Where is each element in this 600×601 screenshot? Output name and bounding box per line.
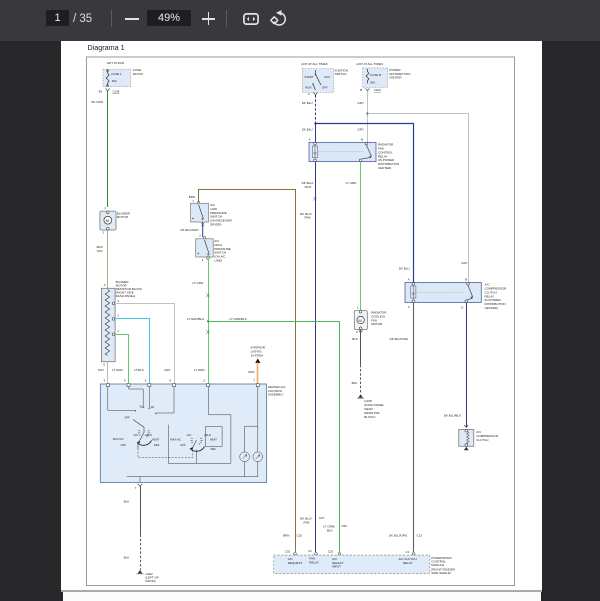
svg-text:GRY: GRY (358, 101, 364, 105)
svg-text:DEF: DEF (211, 447, 217, 451)
svg-text:M: M (358, 318, 361, 323)
svg-text:OFF: OFF (124, 415, 130, 419)
svg-text:C33: C33 (285, 549, 291, 553)
svg-text:D: D (461, 306, 463, 310)
svg-text:CENTER): CENTER) (485, 306, 498, 310)
svg-text:MODULE: MODULE (431, 563, 444, 567)
svg-text:BRN: BRN (283, 534, 289, 538)
svg-text:3: 3 (104, 283, 106, 287)
svg-text:CENTER): CENTER) (378, 166, 391, 170)
svg-text:C20: C20 (297, 534, 303, 538)
svg-text:DK BLU/WHT: DK BLU/WHT (181, 228, 200, 232)
svg-text:BLK: BLK (352, 381, 358, 385)
svg-text:1: 1 (253, 378, 255, 382)
svg-text:3: 3 (104, 378, 106, 382)
svg-text:DK BLU/BLK: DK BLU/BLK (444, 414, 461, 418)
svg-text:DRYER): DRYER) (210, 223, 221, 227)
svg-text:BLK: BLK (124, 556, 130, 560)
svg-text:WHT: WHT (305, 185, 312, 189)
svg-text:TAN: TAN (97, 249, 103, 253)
svg-text:FUSE B: FUSE B (371, 73, 382, 77)
svg-text:A/C: A/C (187, 433, 192, 437)
svg-text:HOT IN RUN: HOT IN RUN (107, 61, 124, 65)
svg-text:DK BLU: DK BLU (302, 128, 313, 132)
svg-text:30A: 30A (112, 79, 117, 83)
svg-text:LT GRN: LT GRN (112, 368, 123, 372)
svg-text:1: 1 (202, 258, 204, 262)
svg-text:DK BLU: DK BLU (399, 267, 410, 271)
svg-text:MAX A/C: MAX A/C (113, 437, 124, 441)
svg-text:3N: 3N (99, 90, 103, 94)
svg-text:A: A (309, 137, 311, 141)
svg-text:LT GRN: LT GRN (194, 368, 205, 372)
svg-text:INPUT: INPUT (332, 564, 341, 568)
svg-text:5: 5 (145, 378, 147, 382)
svg-text:DASH PANEL): DASH PANEL) (116, 294, 136, 298)
svg-text:LT GRN/BLK: LT GRN/BLK (187, 317, 204, 321)
svg-text:GRY: GRY (461, 261, 467, 265)
svg-text:PNK: PNK (304, 520, 310, 524)
svg-text:LT GRN: LT GRN (193, 281, 204, 285)
svg-text:ASSEMBLY: ASSEMBLY (268, 392, 284, 396)
svg-text:MOTOR: MOTOR (371, 322, 383, 326)
svg-text:DEF: DEF (154, 443, 160, 447)
svg-text:30A: 30A (370, 81, 375, 85)
svg-text:MAX A/C: MAX A/C (170, 438, 181, 442)
svg-text:C2: C2 (308, 549, 312, 553)
svg-text:START: START (304, 75, 313, 79)
svg-text:5: 5 (103, 363, 105, 367)
svg-text:SIDE SHIELD): SIDE SHIELD) (431, 571, 451, 575)
svg-text:HOT AT ALL TIMES: HOT AT ALL TIMES (357, 62, 383, 66)
svg-text:LT BLU: LT BLU (134, 368, 144, 372)
svg-text:RELAY: RELAY (403, 561, 413, 565)
svg-text:CENTER: CENTER (389, 75, 402, 79)
svg-text:OFF: OFF (180, 443, 186, 447)
svg-text:HEAT: HEAT (152, 437, 159, 441)
svg-text:ORG: ORG (248, 370, 256, 374)
svg-text:GRY: GRY (358, 128, 364, 132)
svg-text:RUN: RUN (305, 85, 311, 89)
svg-text:Diagrama 1: Diagrama 1 (88, 43, 125, 52)
svg-text:2: 2 (356, 330, 358, 334)
svg-text:RADIO): RADIO) (145, 579, 156, 583)
svg-text:DK BLU: DK BLU (302, 101, 313, 105)
svg-text:A: A (408, 278, 410, 282)
svg-text:OFF: OFF (322, 85, 328, 89)
svg-text:1: 1 (192, 199, 194, 203)
svg-text:C234: C234 (113, 90, 120, 94)
svg-text:C100: C100 (374, 88, 381, 92)
svg-text:BLOCK: BLOCK (133, 72, 143, 76)
svg-text:C: C (408, 305, 410, 309)
svg-text:B: B (361, 137, 363, 141)
svg-text:DK BLU/ORG: DK BLU/ORG (390, 337, 409, 341)
svg-text:1: 1 (117, 329, 119, 333)
svg-text:2: 2 (103, 230, 105, 234)
svg-text:M: M (106, 218, 109, 223)
svg-text:MOTOR: MOTOR (117, 215, 129, 219)
svg-text:BLK: BLK (327, 528, 333, 532)
svg-text:2: 2 (203, 378, 205, 382)
svg-text:LT GRN/BLK: LT GRN/BLK (230, 317, 247, 321)
svg-text:LT GRN: LT GRN (346, 181, 357, 185)
svg-text:A/C: A/C (134, 433, 139, 437)
svg-text:BLOCK): BLOCK) (364, 415, 375, 419)
svg-text:BLK: BLK (124, 500, 130, 504)
svg-text:SWITCH: SWITCH (335, 72, 347, 76)
svg-text:C27: C27 (319, 516, 325, 520)
svg-text:2: 2 (199, 234, 201, 238)
svg-text:SYSTEM: SYSTEM (251, 353, 264, 357)
svg-text:2: 2 (117, 313, 119, 317)
svg-text:7: 7 (135, 486, 137, 490)
svg-text:LINE): LINE) (214, 259, 222, 263)
svg-text:1: 1 (104, 206, 106, 210)
svg-text:ACC: ACC (324, 75, 330, 79)
svg-text:6: 6 (170, 378, 172, 382)
svg-text:C13: C13 (417, 534, 423, 538)
svg-text:OFF: OFF (121, 443, 127, 447)
svg-text:GRY: GRY (164, 368, 170, 372)
svg-text:C1: C1 (406, 550, 410, 554)
svg-text:FUSE 1: FUSE 1 (112, 72, 123, 76)
svg-text:1: 1 (357, 305, 359, 309)
svg-text:BLK: BLK (352, 337, 358, 341)
svg-text:DK BLU/ORG: DK BLU/ORG (389, 534, 408, 538)
svg-text:4: 4 (124, 378, 126, 382)
svg-text:C90: C90 (341, 524, 347, 528)
svg-text:HOT AT ALL TIMES: HOT AT ALL TIMES (301, 62, 327, 66)
svg-text:RELAY: RELAY (309, 560, 319, 564)
svg-text:HEAT: HEAT (210, 437, 217, 441)
svg-text:HI/LO: HI/LO (204, 433, 211, 437)
svg-text:REQUEST: REQUEST (288, 561, 303, 565)
svg-text:TAN: TAN (98, 368, 104, 372)
svg-text:B: B (465, 278, 467, 282)
svg-text:CLUTCH: CLUTCH (476, 438, 488, 442)
svg-text:4: 4 (117, 299, 119, 303)
svg-text:DK GRN: DK GRN (91, 100, 103, 104)
svg-text:C25: C25 (328, 549, 334, 553)
svg-text:PNK: PNK (305, 215, 311, 219)
svg-text:B: B (360, 88, 362, 92)
